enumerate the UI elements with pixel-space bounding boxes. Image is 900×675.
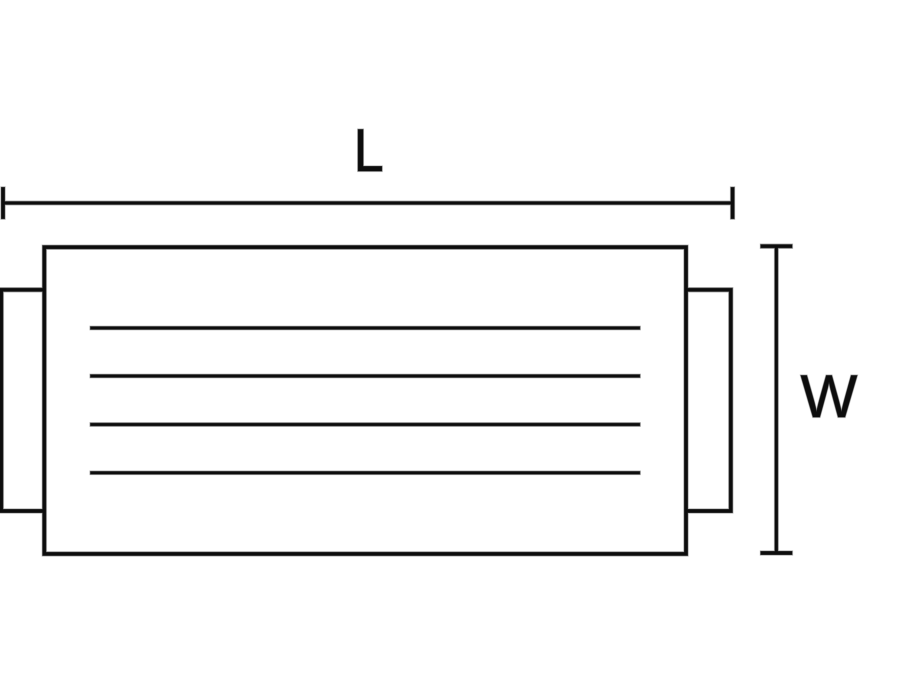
svg-text:W: W	[801, 363, 858, 430]
svg-text:L: L	[354, 117, 384, 184]
